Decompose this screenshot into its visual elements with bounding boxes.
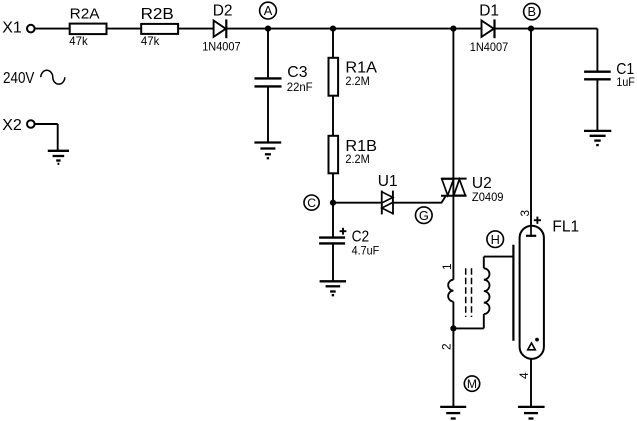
svg-text:1: 1 bbox=[440, 263, 454, 270]
svg-text:G: G bbox=[419, 208, 429, 223]
svg-text:H: H bbox=[491, 232, 500, 247]
svg-text:1uF: 1uF bbox=[616, 75, 634, 89]
svg-text:C3: C3 bbox=[287, 64, 307, 81]
svg-text:2: 2 bbox=[439, 343, 453, 350]
svg-text:C: C bbox=[307, 196, 316, 210]
svg-text:1N4007: 1N4007 bbox=[202, 39, 240, 53]
svg-text:22nF: 22nF bbox=[287, 80, 313, 94]
svg-text:47k: 47k bbox=[141, 34, 159, 48]
svg-text:R2B: R2B bbox=[141, 6, 174, 23]
svg-text:D2: D2 bbox=[213, 2, 233, 19]
svg-text:1N4007: 1N4007 bbox=[470, 40, 508, 54]
svg-text:R2A: R2A bbox=[70, 5, 100, 22]
svg-text:2.2M: 2.2M bbox=[345, 152, 369, 166]
svg-text:3: 3 bbox=[518, 210, 532, 217]
svg-text:240V: 240V bbox=[3, 70, 35, 87]
svg-text:A: A bbox=[264, 3, 273, 18]
svg-text:4.7uF: 4.7uF bbox=[352, 244, 380, 258]
svg-text:B: B bbox=[528, 4, 537, 19]
svg-text:Z0409: Z0409 bbox=[472, 190, 504, 204]
svg-text:47k: 47k bbox=[69, 34, 87, 48]
svg-text:X1: X1 bbox=[2, 20, 22, 37]
svg-text:2.2M: 2.2M bbox=[345, 74, 369, 88]
svg-text:4: 4 bbox=[517, 372, 531, 379]
svg-text:U1: U1 bbox=[378, 173, 398, 190]
svg-text:X2: X2 bbox=[2, 117, 22, 134]
svg-text:M: M bbox=[467, 377, 477, 391]
svg-text:D1: D1 bbox=[479, 2, 499, 19]
svg-text:FL1: FL1 bbox=[552, 218, 579, 235]
